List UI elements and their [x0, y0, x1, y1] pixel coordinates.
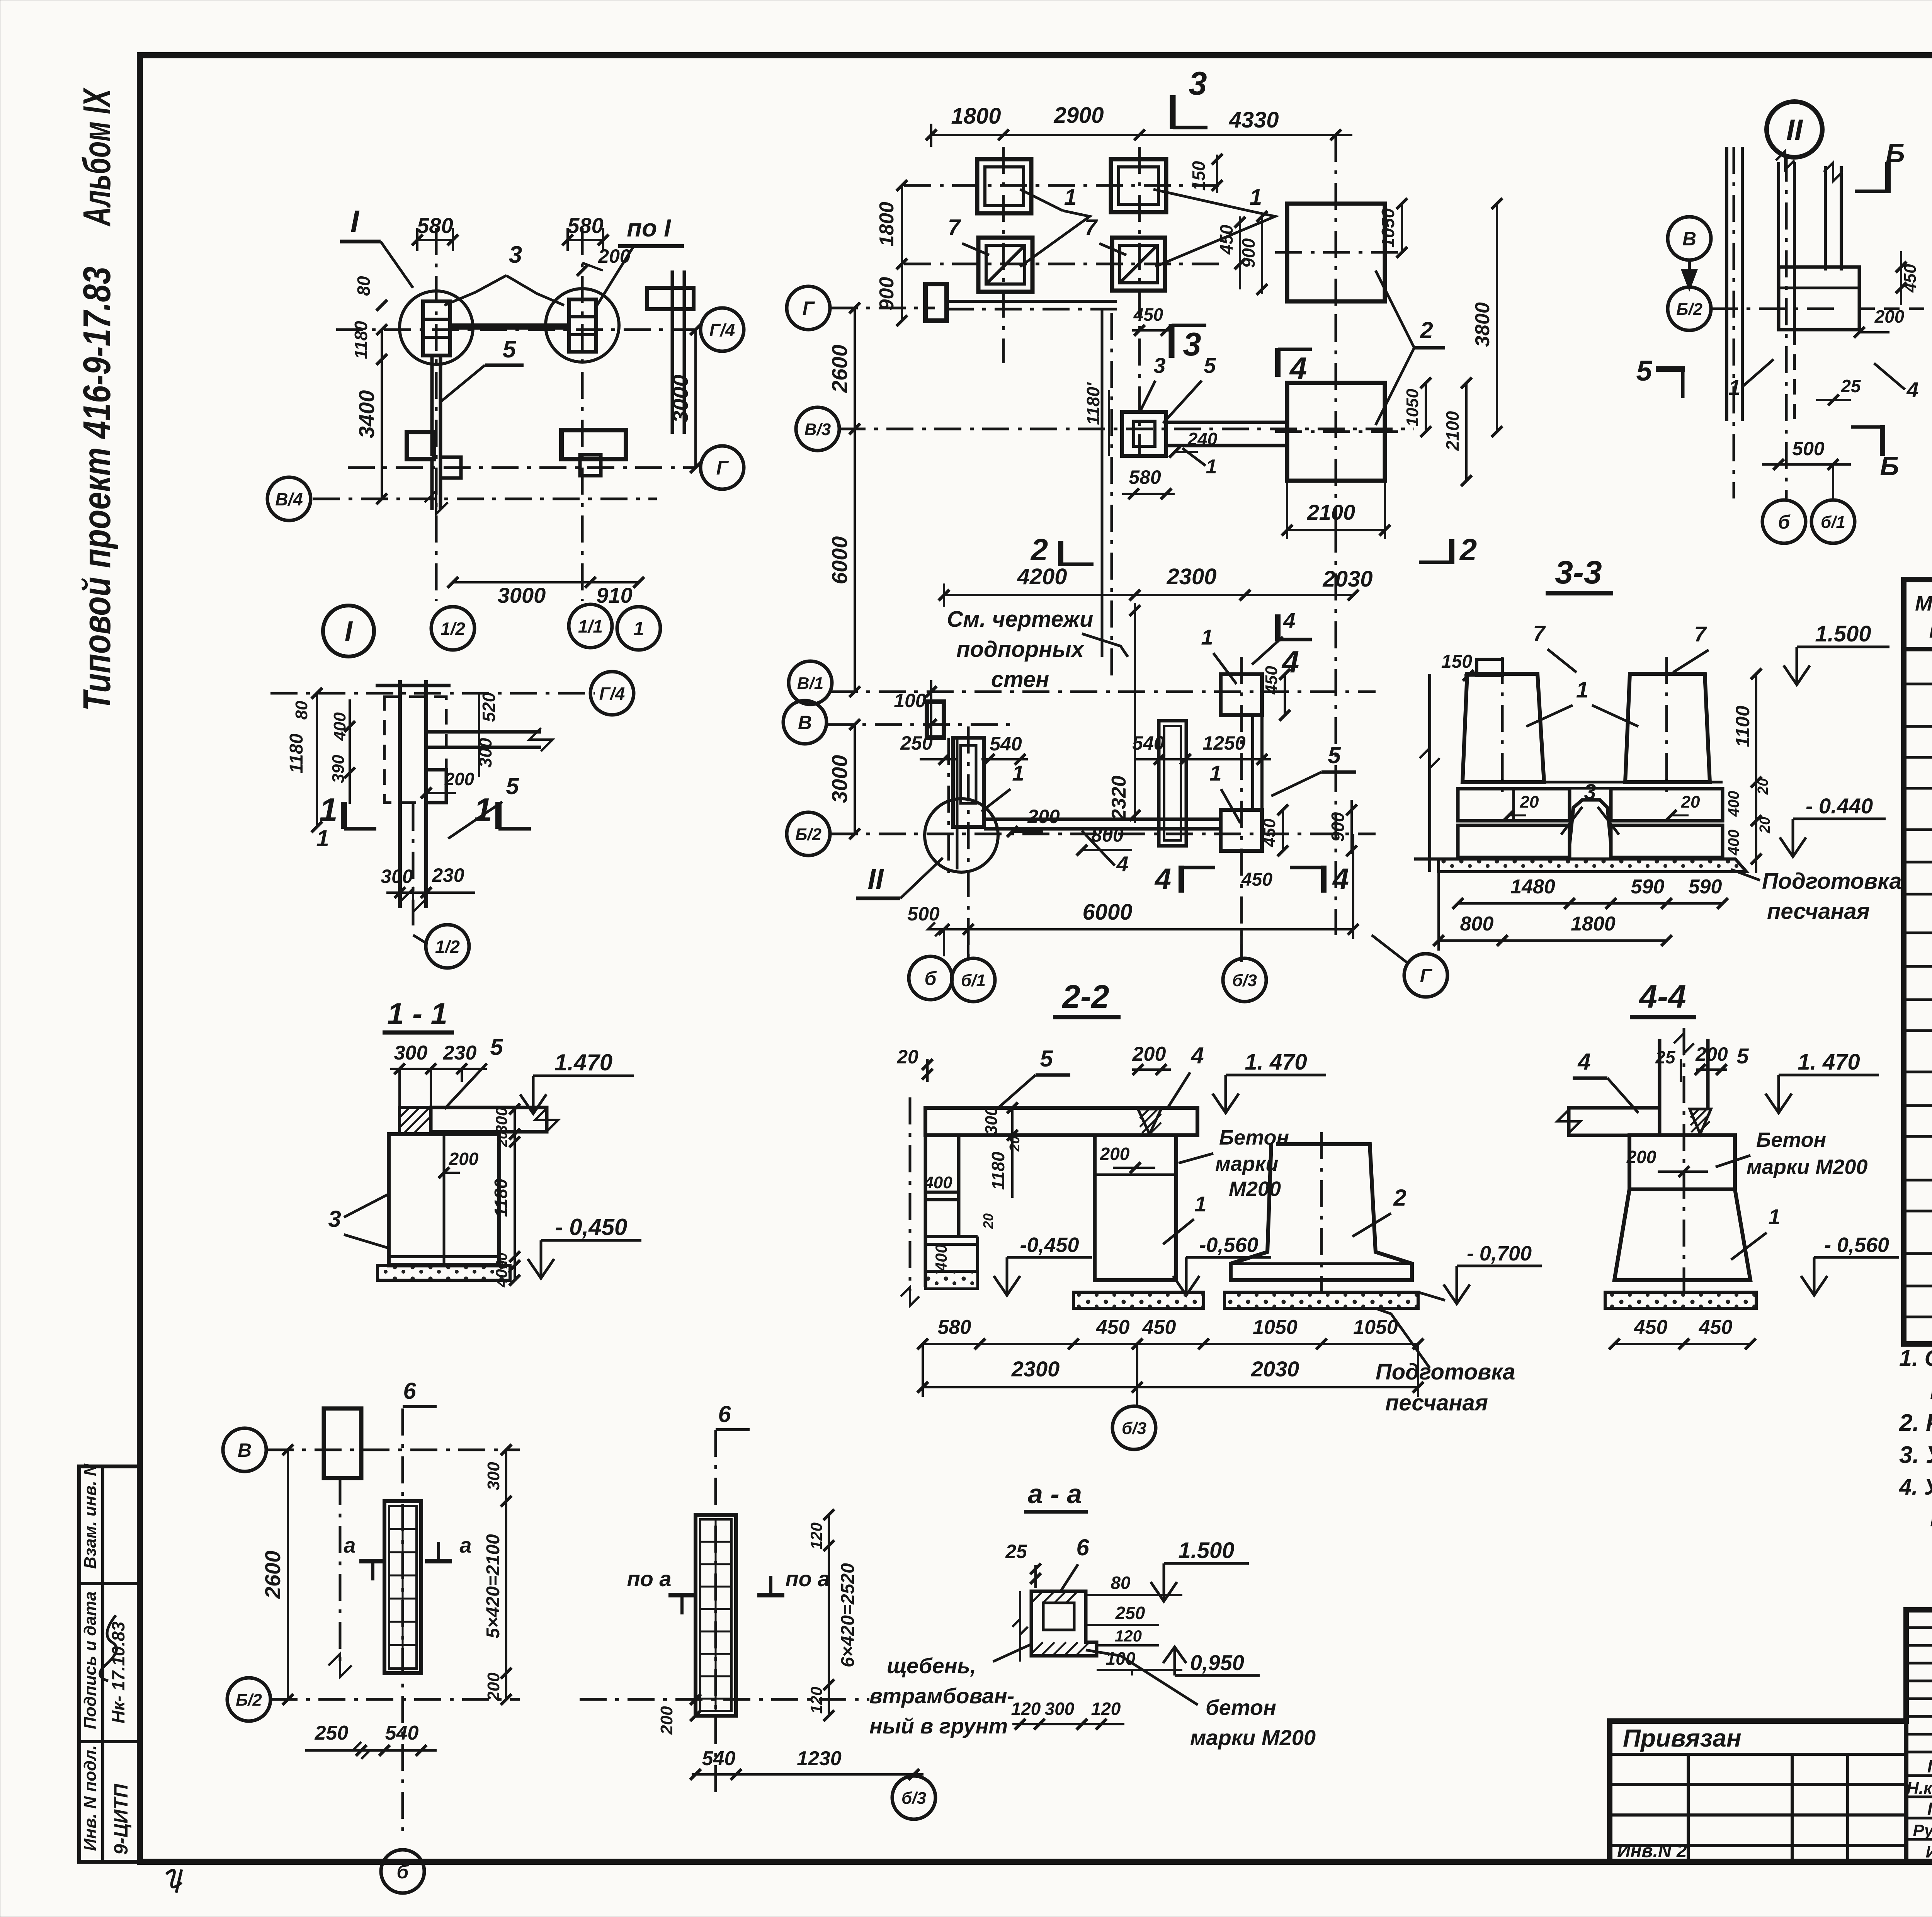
- axis circle б/1 central: [952, 958, 995, 1002]
- svg-text:20: 20: [1681, 793, 1700, 811]
- svg-text:300: 300: [1045, 1699, 1075, 1719]
- svg-text:20: 20: [1757, 817, 1773, 833]
- svg-text:1: 1: [1012, 761, 1024, 785]
- svg-text:II: II: [867, 863, 884, 895]
- svg-text:20: 20: [980, 1213, 996, 1229]
- 2-2: sand strip under fundament 2: [1225, 1292, 1418, 1308]
- axis circle б central: [909, 956, 952, 1000]
- central plan: top dim line 1800 2900 4330: [931, 134, 1352, 136]
- svg-text:240: 240: [1187, 429, 1218, 449]
- svg-text:марки М200: марки М200: [1190, 1725, 1316, 1750]
- svg-text:7: 7: [948, 215, 961, 240]
- svg-text:2300: 2300: [1011, 1357, 1060, 1381]
- svg-text:2-2: 2-2: [1061, 978, 1109, 1015]
- svg-text:2030: 2030: [1322, 566, 1372, 592]
- plan по I: column centerline 1/1: [581, 228, 584, 601]
- block plan left: wall centerline: [401, 1408, 404, 1839]
- dim 580 left column: [417, 239, 453, 241]
- svg-text:200: 200: [1626, 1147, 1656, 1167]
- plan по I: axis Г/4 line: [336, 328, 696, 331]
- detail bubble circle right: [546, 289, 619, 362]
- svg-text:б: б: [397, 1861, 410, 1883]
- svg-text:4: 4: [1577, 1049, 1590, 1075]
- svg-text:II: II: [1786, 114, 1803, 146]
- svg-text:1: 1: [1194, 1192, 1206, 1216]
- 2-2: fundament 2 centerline: [1320, 1132, 1323, 1291]
- svg-text:Подготовка: Подготовка: [1762, 869, 1902, 894]
- block plan left: dim 2600: [287, 1450, 289, 1699]
- svg-text:1480: 1480: [1510, 876, 1555, 898]
- svg-text:20: 20: [494, 1131, 510, 1147]
- svg-text:230: 230: [432, 864, 464, 886]
- svg-text:Б: Б: [1886, 138, 1905, 168]
- svg-text:б/3: б/3: [901, 1789, 926, 1808]
- svg-text:В: В: [238, 1439, 252, 1461]
- svg-text:4: 4: [1289, 351, 1307, 385]
- svg-text:3-3: 3-3: [1555, 554, 1602, 590]
- foundation squares row1 right: [1111, 159, 1166, 212]
- svg-text:450: 450: [1260, 818, 1279, 847]
- svg-text:25: 25: [1005, 1541, 1027, 1562]
- table outer border: [1904, 580, 1932, 1344]
- svg-text:450: 450: [1262, 666, 1281, 695]
- 1-1: top hatched wedge: [400, 1107, 431, 1134]
- svg-text:ный в грунт: ный в грунт: [869, 1714, 1008, 1738]
- 2-2: column body: [1095, 1135, 1176, 1280]
- svg-text:500: 500: [1792, 438, 1825, 459]
- section 2 marks: [1058, 541, 1063, 566]
- 2-2: hatched wedge in beam: [1138, 1109, 1161, 1134]
- svg-text:бетон: бетон: [1206, 1695, 1276, 1720]
- svg-text:200: 200: [1874, 306, 1905, 327]
- 4-4: hatched wedge: [1690, 1109, 1711, 1134]
- svg-text:250: 250: [1115, 1603, 1145, 1623]
- svg-text:4. Установку фундаментных ба: 4. Установку фундаментных балок на бетон…: [1899, 1475, 1932, 1500]
- svg-text:3: 3: [509, 242, 522, 268]
- svg-text:Б: Б: [1880, 451, 1899, 481]
- svg-text:В/3: В/3: [804, 420, 831, 439]
- svg-text:песчаная толщ. 150мм.: песчаная толщ. 150мм.: [1930, 1378, 1932, 1404]
- detail I: small pad: [426, 770, 446, 803]
- central plan: б/3 lower foundation: [1221, 810, 1262, 851]
- svg-text:300: 300: [492, 1107, 510, 1134]
- svg-text:120: 120: [1115, 1627, 1142, 1645]
- svg-text:590: 590: [1689, 876, 1722, 898]
- central plan: column foundation at б/1: [953, 738, 984, 827]
- svg-text:б/1: б/1: [961, 971, 986, 990]
- svg-text:Б/2: Б/2: [236, 1691, 262, 1709]
- svg-text:Привязан: Привязан: [1623, 1724, 1742, 1752]
- svg-text:ГИП: ГИП: [1927, 1756, 1932, 1776]
- svg-text:9-ЦИТП: 9-ЦИТП: [110, 1784, 132, 1855]
- detail I: dashed foundation outline: [384, 697, 446, 803]
- svg-text:6: 6: [718, 1401, 731, 1427]
- svg-text:1180: 1180: [491, 1179, 511, 1217]
- svg-text:5: 5: [490, 1034, 503, 1060]
- svg-text:Подготовка: Подготовка: [1376, 1359, 1515, 1385]
- 3-3: blocks row 1: [1458, 789, 1570, 821]
- central plan: dim 6000 В/3-В/1: [854, 429, 856, 692]
- svg-text:-0,560: -0,560: [1199, 1233, 1258, 1257]
- detail II: column top break: [1824, 166, 1827, 270]
- svg-text:1.500: 1.500: [1815, 621, 1871, 646]
- detail I: section marks 1-1: [341, 802, 347, 829]
- svg-text:Рук. гр.: Рук. гр.: [1913, 1821, 1932, 1840]
- svg-text:6×420=2520: 6×420=2520: [838, 1563, 858, 1667]
- stamp table bottom-left: [79, 1466, 140, 1862]
- svg-text:200: 200: [1027, 806, 1060, 827]
- svg-text:Инв. N подл.: Инв. N подл.: [81, 1745, 100, 1851]
- svg-text:80: 80: [1111, 1573, 1131, 1593]
- small mark below stamp: [166, 1869, 182, 1893]
- svg-text:1180': 1180': [1083, 382, 1103, 425]
- central plan: wall corner on В: [927, 702, 944, 738]
- svg-text:2300: 2300: [1166, 564, 1216, 589]
- svg-text:1/2: 1/2: [435, 937, 460, 957]
- svg-text:4: 4: [1283, 608, 1295, 633]
- axis circle Г below 3-3: [1404, 954, 1447, 997]
- block plan right: hatched wall: [696, 1515, 736, 1716]
- svg-text:1/1: 1/1: [578, 616, 603, 636]
- central plan: column on В/3: [1122, 412, 1166, 456]
- svg-text:3800: 3800: [1471, 302, 1494, 347]
- svg-text:Г: Г: [716, 457, 729, 479]
- svg-text:580: 580: [1129, 466, 1161, 488]
- svg-text:3: 3: [328, 1206, 341, 1232]
- svg-text:- 0,450: - 0,450: [555, 1214, 628, 1240]
- svg-text:2: 2: [1030, 532, 1048, 567]
- svg-text:стен: стен: [991, 667, 1049, 692]
- svg-text:песчаная: песчаная: [1385, 1390, 1488, 1415]
- table header underline: [1904, 647, 1932, 651]
- axis circle б/3 below 2-2: [1112, 1406, 1156, 1449]
- svg-text:1180: 1180: [988, 1152, 1008, 1190]
- block plan right: centerline: [714, 1430, 717, 1801]
- svg-text:900: 900: [1328, 812, 1348, 842]
- svg-text:230: 230: [443, 1042, 477, 1064]
- svg-text:1100: 1100: [1732, 706, 1753, 747]
- detail II: foundation step outline: [1779, 267, 1859, 330]
- plan по I: axis Г line: [348, 466, 696, 469]
- dims 1050 2100 lower square: [1425, 383, 1427, 432]
- detail II circled label: [1767, 102, 1822, 157]
- central plan: beam 5 between б/3 foundations: [1251, 715, 1254, 810]
- section 4 mark lower: [1275, 614, 1281, 641]
- svg-text:1. 470: 1. 470: [1245, 1050, 1307, 1075]
- svg-text:Г/4: Г/4: [709, 320, 735, 340]
- detail II: wall vertical lines: [1725, 147, 1728, 421]
- svg-text:5: 5: [1736, 1044, 1749, 1068]
- svg-text:М200: М200: [1229, 1177, 1281, 1201]
- foundation squares row2 right with diagonal: [1112, 238, 1165, 291]
- dim 3400 vertical: [381, 330, 383, 499]
- svg-text:- 0,560: - 0,560: [1824, 1233, 1889, 1257]
- 3-3: foundation trapezoid right: [1625, 674, 1710, 782]
- svg-text:400: 400: [1725, 791, 1742, 817]
- svg-text:4: 4: [1906, 378, 1918, 402]
- block plan left: second centerline: [339, 1478, 342, 1662]
- svg-text:1: 1: [316, 825, 329, 851]
- svg-text:120: 120: [807, 1522, 825, 1550]
- block plan right: right dim chain: [828, 1515, 830, 1716]
- 3-3: beam lines under foundations: [1463, 781, 1723, 784]
- table row lines: [1904, 683, 1932, 685]
- 4-4: column above: [1658, 1039, 1662, 1108]
- svg-text:910: 910: [596, 583, 632, 607]
- svg-text:7: 7: [1694, 622, 1707, 646]
- svg-text:80: 80: [292, 701, 311, 720]
- svg-text:См. чертежи: См. чертежи: [947, 607, 1094, 632]
- svg-text:300: 300: [394, 1042, 428, 1064]
- 2-2: sand strip under column: [1073, 1292, 1204, 1308]
- svg-text:2: 2: [1393, 1185, 1406, 1211]
- central plan: section 3 mark bottom: [1169, 324, 1175, 358]
- svg-text:900: 900: [876, 277, 898, 311]
- svg-text:марки М200: марки М200: [1747, 1155, 1867, 1179]
- 4-4: beam left: [1569, 1108, 1660, 1135]
- detail II: section mark Б top: [1885, 162, 1891, 193]
- central plan: beam from В/3 column to square: [1166, 421, 1287, 424]
- small pad below right: [580, 455, 601, 476]
- svg-text:Нк- 17.10.83: Нк- 17.10.83: [108, 1621, 128, 1723]
- svg-text:1800: 1800: [1571, 913, 1616, 935]
- svg-text:2: 2: [1420, 317, 1433, 343]
- svg-text:800: 800: [1460, 913, 1494, 935]
- svg-text:200: 200: [657, 1706, 676, 1735]
- svg-text:540: 540: [385, 1722, 419, 1744]
- svg-text:1: 1: [1206, 456, 1217, 478]
- axis circle Г central: [831, 307, 935, 310]
- svg-text:- 0.440: - 0.440: [1806, 794, 1873, 818]
- svg-text:450: 450: [1241, 869, 1272, 890]
- svg-text:б/1: б/1: [1821, 513, 1845, 532]
- svg-text:3. Уровень грунтовых вод не: 3. Уровень грунтовых вод не выше отм. - …: [1899, 1442, 1932, 1468]
- central plan: wall verticals below В: [947, 738, 950, 877]
- plan по I: axis В/4 line: [313, 498, 657, 500]
- svg-text:0,950: 0,950: [1190, 1650, 1244, 1675]
- svg-text:1/2: 1/2: [440, 619, 465, 639]
- svg-text:Г: Г: [803, 298, 815, 319]
- svg-text:580: 580: [567, 213, 603, 238]
- svg-text:2100: 2100: [1307, 500, 1355, 524]
- axis circle Г/4: [701, 308, 744, 351]
- axis circle б/3 bottom: [892, 1776, 935, 1819]
- 3-3: keystone block between: [1570, 800, 1611, 844]
- svg-text:1. Основание под фундаменты-: 1. Основание под фундаменты- насыпной гр…: [1899, 1345, 1932, 1371]
- axis circle б detail II: [1762, 500, 1806, 543]
- svg-text:3000: 3000: [668, 375, 692, 423]
- svg-text:2100: 2100: [1442, 411, 1463, 451]
- svg-text:450: 450: [1142, 1316, 1176, 1339]
- axis circle Г/4 detail: [590, 672, 634, 715]
- dim 1050 upper right: [1401, 204, 1403, 252]
- svg-text:1. 470: 1. 470: [1798, 1050, 1860, 1075]
- svg-text:2. Расчетная глубина промерза: 2. Расчетная глубина промерзания 1,9м.: [1899, 1410, 1932, 1436]
- svg-text:6: 6: [1076, 1534, 1089, 1560]
- svg-text:450: 450: [1901, 264, 1920, 293]
- a-a: left centerline: [1019, 1591, 1021, 1662]
- svg-text:1 - 1: 1 - 1: [387, 997, 447, 1031]
- 2-2: centerline left wall: [909, 1097, 912, 1291]
- svg-text:1050: 1050: [1253, 1316, 1298, 1339]
- central plan: left dim 1800 900: [901, 185, 903, 321]
- detail I: centerline to 1/2: [412, 804, 415, 925]
- block plan left: axis В: [267, 1449, 520, 1451]
- svg-text:4: 4: [1190, 1043, 1204, 1068]
- central plan: dim 4200 2300 2030: [944, 594, 1353, 596]
- svg-text:250: 250: [900, 732, 933, 754]
- axis circle б/1 detail II: [1811, 500, 1855, 543]
- svg-text:20: 20: [896, 1046, 918, 1068]
- central plan: wall lines from corner: [947, 300, 1117, 303]
- svg-text:втрамбован-: втрамбован-: [869, 1684, 1014, 1708]
- axis circle Г: [701, 446, 744, 489]
- svg-text:80: 80: [354, 276, 374, 296]
- footing block on В/4 left: [407, 432, 434, 459]
- bottom dim 3000: [453, 581, 590, 583]
- svg-text:200: 200: [444, 769, 474, 789]
- svg-text:6000: 6000: [1082, 900, 1132, 925]
- column H-section right: [569, 299, 596, 352]
- 2-2: fundament 2 body: [1231, 1144, 1412, 1280]
- svg-text:500: 500: [907, 903, 940, 925]
- 1-1: column body: [389, 1134, 499, 1266]
- central plan: beam 4 on Б/2: [984, 818, 1221, 821]
- 3-3: foundation trapezoid left: [1463, 674, 1544, 782]
- svg-text:2: 2: [1459, 532, 1477, 567]
- svg-text:5: 5: [1636, 355, 1653, 387]
- column stem below left: [430, 356, 434, 456]
- 3-3: blocks row 2: [1458, 825, 1570, 857]
- block plan left: beam end rect: [324, 1408, 361, 1478]
- svg-text:Г/4: Г/4: [599, 684, 625, 704]
- svg-text:1: 1: [1250, 185, 1262, 210]
- svg-text:1: 1: [1728, 375, 1740, 400]
- dim 580 right column: [568, 239, 603, 241]
- svg-text:100: 100: [1106, 1648, 1136, 1669]
- detail II: section mark Б bottom: [1880, 425, 1885, 456]
- svg-text:I: I: [345, 616, 353, 647]
- svg-text:20: 20: [1755, 778, 1771, 795]
- svg-text:1050: 1050: [1378, 208, 1398, 248]
- 4-4: column body: [1629, 1135, 1735, 1189]
- svg-text:3: 3: [1153, 353, 1165, 378]
- svg-text:а: а: [344, 1533, 355, 1557]
- svg-text:5: 5: [503, 336, 517, 363]
- svg-text:Б/2: Б/2: [795, 825, 821, 844]
- block plan right: axis Б/2 extension: [580, 1698, 869, 1701]
- central plan: section 3 mark top: [1170, 95, 1176, 129]
- svg-text:3400: 3400: [354, 390, 379, 439]
- central plan: column centerline x2949: [1138, 147, 1141, 456]
- svg-text:250: 250: [315, 1722, 349, 1744]
- svg-text:3000: 3000: [827, 755, 852, 803]
- svg-text:3: 3: [1183, 326, 1201, 363]
- 1-1: right dim chain 300 20 1180 20 400: [514, 1109, 516, 1281]
- svg-text:200: 200: [1100, 1144, 1130, 1164]
- fundament 2 square lower: [1287, 383, 1385, 481]
- svg-text:580: 580: [938, 1316, 971, 1339]
- svg-text:Взам. инв. N: Взам. инв. N: [81, 1463, 100, 1569]
- svg-text:5×420=2100: 5×420=2100: [483, 1534, 503, 1638]
- block plan left: right dim chain: [505, 1450, 507, 1699]
- central plan: section 4 mark upper: [1275, 348, 1281, 377]
- svg-text:Подпись и дата: Подпись и дата: [81, 1591, 100, 1729]
- 2-2: left wall structure: [924, 1135, 927, 1287]
- axis circle В/1: [831, 691, 1376, 693]
- svg-text:200: 200: [598, 245, 631, 267]
- svg-text:-0,450: -0,450: [1020, 1233, 1079, 1257]
- svg-text:450: 450: [1133, 304, 1163, 325]
- axis circle б below: [381, 1850, 424, 1893]
- svg-text:1050: 1050: [1403, 389, 1422, 427]
- axis circle 1/2 detail: [426, 925, 469, 968]
- detail I: axis Г/4 line: [270, 692, 595, 695]
- svg-text:1180: 1180: [286, 733, 307, 774]
- detail I: column verticals: [398, 680, 402, 847]
- svg-text:ГИП: ГИП: [1927, 1799, 1932, 1819]
- column H-section left: [423, 301, 450, 356]
- svg-text:450: 450: [1216, 225, 1236, 255]
- central plan: column centerline б/1: [967, 726, 970, 962]
- detail I: column break bottom: [398, 847, 402, 908]
- central plan: right dims near squares: [1239, 216, 1241, 289]
- svg-text:120: 120: [1091, 1699, 1121, 1719]
- svg-text:3000: 3000: [498, 583, 546, 607]
- svg-text:1.500: 1.500: [1178, 1538, 1234, 1563]
- svg-text:4330: 4330: [1228, 107, 1279, 133]
- svg-text:5: 5: [506, 773, 519, 799]
- svg-text:400: 400: [932, 1244, 950, 1272]
- plan по I: column centerline 1/2: [435, 228, 438, 601]
- svg-text:В/4: В/4: [275, 489, 303, 509]
- 1-1: base slab dotted: [378, 1266, 510, 1280]
- detail II: axis В circle: [1668, 217, 1711, 260]
- svg-text:6: 6: [403, 1378, 416, 1404]
- foundation squares row2 left with diagonal: [978, 238, 1032, 292]
- block plan left: hatched wall: [384, 1501, 421, 1673]
- central plan: dim 3000 В-Б/2: [854, 725, 856, 834]
- a-a: channel section body: [1031, 1591, 1097, 1656]
- svg-text:4: 4: [1116, 852, 1128, 876]
- svg-text:540: 540: [990, 733, 1022, 755]
- svg-text:по а: по а: [785, 1567, 830, 1591]
- svg-text:Г: Г: [1420, 965, 1433, 987]
- svg-text:Б/2: Б/2: [1676, 300, 1702, 319]
- svg-text:4-4: 4-4: [1638, 978, 1686, 1015]
- svg-text:1800: 1800: [951, 104, 1001, 129]
- svg-text:5: 5: [1040, 1046, 1053, 1072]
- footing block on В/4 right: [561, 430, 626, 459]
- section 4 marks near Б/2: [1179, 866, 1184, 893]
- detail II: axis Б/2 circle: [1668, 287, 1711, 330]
- svg-text:Альбом IX: Альбом IX: [75, 87, 119, 227]
- svg-text:100: 100: [894, 690, 926, 711]
- svg-text:25: 25: [1840, 376, 1861, 396]
- axis circle Б/2 central: [831, 833, 1376, 835]
- svg-text:В/1: В/1: [797, 674, 823, 693]
- 4-4: centerline: [1683, 1028, 1685, 1291]
- central plan: column centerline x2597: [1002, 147, 1005, 363]
- svg-text:Бетон: Бетон: [1756, 1128, 1826, 1152]
- central plan: wall corner block on Г: [925, 284, 947, 321]
- svg-text:590: 590: [1631, 876, 1665, 898]
- svg-text:б/3: б/3: [1232, 971, 1257, 990]
- fundament 2 square upper: [1287, 204, 1385, 301]
- svg-text:540: 540: [702, 1747, 736, 1770]
- central plan: vertical beam plan: [1159, 721, 1186, 846]
- svg-text:1: 1: [1768, 1204, 1780, 1229]
